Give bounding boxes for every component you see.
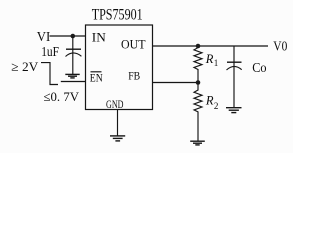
capacitor Co curved plate	[227, 66, 242, 70]
ground for C1	[65, 74, 79, 78]
svg-text:R: R	[205, 94, 214, 108]
ground for Co	[226, 108, 242, 113]
node junction R1/R2/FB	[196, 80, 201, 85]
capacitor Co stem upper	[233, 46, 235, 62]
svg-text:FB: FB	[128, 69, 140, 83]
svg-text:IN: IN	[92, 30, 107, 45]
node junction OUT/R1	[196, 44, 201, 49]
svg-text:V0: V0	[273, 40, 287, 55]
svg-text:OUT: OUT	[121, 37, 146, 52]
IC U1 TPS75901 box	[86, 25, 153, 110]
svg-text:GND: GND	[106, 97, 124, 111]
svg-text:≤0. 7V: ≤0. 7V	[44, 89, 80, 104]
wire EN input	[61, 81, 86, 83]
capacitor Co stem lower	[233, 63, 235, 108]
capacitor C1 curved plate	[66, 53, 82, 57]
node junction VI/C1	[71, 34, 76, 39]
svg-text:Co: Co	[252, 61, 266, 76]
svg-text:1uF: 1uF	[41, 44, 59, 59]
EN overline	[91, 71, 102, 73]
capacitor C1 stem lower	[72, 50, 74, 75]
capacitor C1 1uF stem upper	[72, 36, 74, 49]
resistor R2	[194, 83, 202, 141]
resistor R1	[194, 46, 202, 83]
ground for GND pin	[110, 136, 125, 141]
wire GND pin	[117, 110, 119, 136]
capacitor C1 top plate	[66, 48, 81, 50]
wire VI to IN pin	[50, 35, 86, 37]
svg-text:1: 1	[214, 58, 219, 68]
wire FB to R1/R2 junction	[153, 82, 199, 84]
svg-text:EN: EN	[90, 73, 104, 85]
svg-text:2: 2	[214, 101, 219, 111]
capacitor Co top plate	[227, 61, 242, 63]
svg-text:R: R	[205, 52, 214, 66]
svg-text:TPS75901: TPS75901	[92, 6, 143, 23]
svg-text:VI: VI	[37, 30, 51, 45]
wire OUT to V0	[153, 45, 269, 47]
ground for R2	[190, 141, 205, 145]
svg-text:≥ 2V: ≥ 2V	[11, 59, 39, 74]
EN step waveform glyph	[41, 63, 58, 85]
